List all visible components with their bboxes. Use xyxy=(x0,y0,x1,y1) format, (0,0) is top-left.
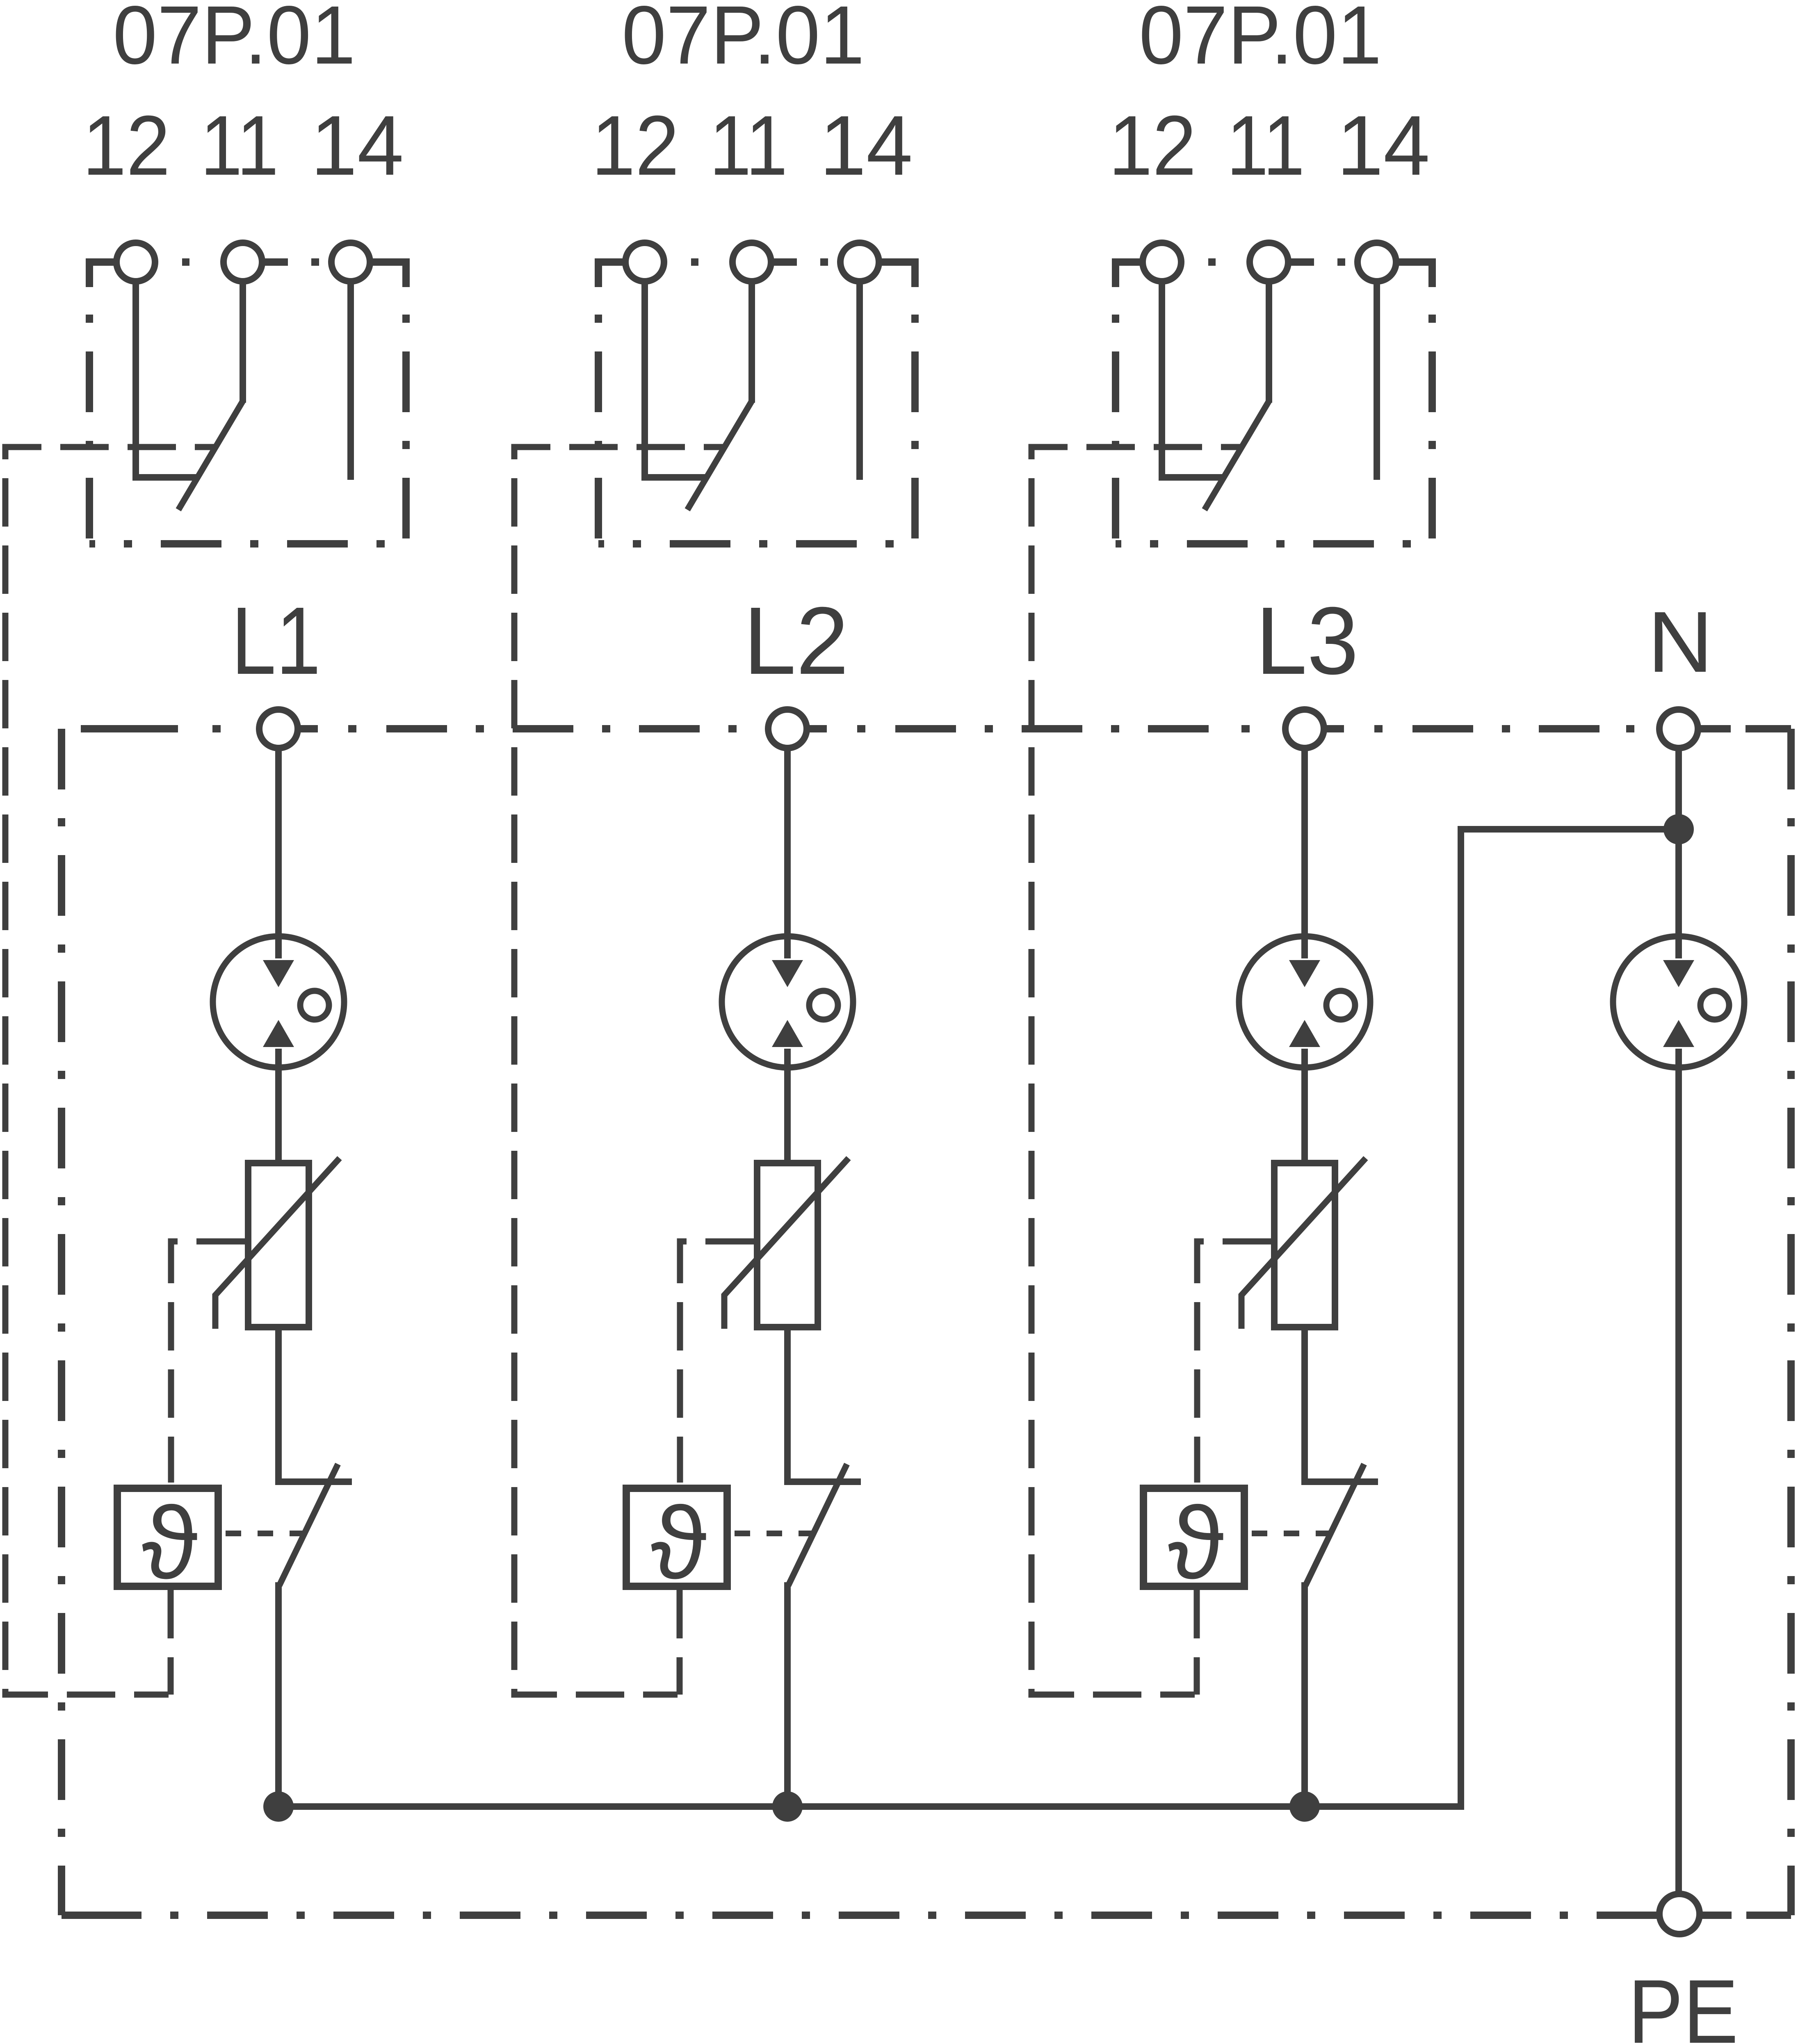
thermal coupling dashed line from varistor RV2 to thermal sensor xyxy=(680,1241,754,1483)
corner dash piece at enclosure bottom-left xyxy=(62,1912,108,1919)
relay 07P.01 #3 box left edge (dash-dot) xyxy=(1112,287,1119,544)
varistor RV1 body xyxy=(248,1163,309,1327)
common bus wire from phases up to neutral node xyxy=(278,829,1679,1807)
thermal sensor box 2 xyxy=(626,1488,727,1586)
thermal disconnector switch blade 1 xyxy=(279,1464,338,1585)
SPD enclosure top edge, N to right corner xyxy=(1701,725,1791,732)
svg-text:07P.01: 07P.01 xyxy=(113,0,356,81)
terminal 11 (relay 2) xyxy=(732,243,771,281)
relay 07P.01 #3 box bottom edge (dash-dot) xyxy=(1116,540,1432,547)
svg-text:07P.01: 07P.01 xyxy=(1139,0,1382,81)
relay 07P.01 #1 box left edge (dash-dot) xyxy=(86,287,93,544)
relay 1 box top edge dot between pins 11 and 14 xyxy=(311,258,319,266)
svg-text:N: N xyxy=(1647,593,1713,690)
wire from terminal 12 down and right to NC contact (relay 1) xyxy=(136,281,198,477)
relay 07P.01 #1 box bottom edge (dash-dot) xyxy=(89,540,406,547)
wire from switch 1 down to common bus xyxy=(275,1582,282,1807)
svg-text:11: 11 xyxy=(201,98,279,193)
svg-text:12: 12 xyxy=(591,98,679,193)
svg-text:ϑ: ϑ xyxy=(1168,1485,1224,1600)
SPD enclosure top edge, L1 to L2 xyxy=(301,725,765,732)
wire from switch 3 down to common bus xyxy=(1301,1582,1308,1807)
wire from common terminal 11 (relay 1) xyxy=(240,281,246,403)
svg-text:07P.01: 07P.01 xyxy=(622,0,865,81)
module 1 lower contact arrow (up) xyxy=(263,1020,294,1047)
varistor RV1 diagonal stroke xyxy=(215,1158,340,1329)
wire from varistor RV2 to thermal disconnector switch 2 xyxy=(787,1330,861,1482)
module 3 status indicator window xyxy=(1326,991,1355,1020)
terminal 14 (relay 3) xyxy=(1358,243,1396,281)
module 2 lower contact arrow (up) xyxy=(772,1020,803,1047)
terminal 14 (relay 1) xyxy=(331,243,370,281)
relay 3 box top edge dot between pins 11 and 14 xyxy=(1337,258,1345,266)
module 3 upper contact arrow (down) xyxy=(1289,960,1320,987)
svg-text:11: 11 xyxy=(710,98,788,193)
svg-text:11: 11 xyxy=(1227,98,1305,193)
plug-in module symbol 1: circle with disconnect arrows xyxy=(213,936,344,1068)
terminal L3 on enclosure top edge xyxy=(1285,709,1324,748)
wire from module 2 to varistor RV2 xyxy=(784,1049,791,1163)
svg-text:12: 12 xyxy=(82,98,170,193)
dashed linkage below thermal sensor 1 xyxy=(168,1590,174,1695)
wire from terminal L3 to plug-in module 3 xyxy=(1301,748,1308,958)
svg-text:14: 14 xyxy=(820,98,913,193)
svg-text:L3: L3 xyxy=(1256,587,1359,694)
wire from terminal 14, NO contact (relay 3) xyxy=(1374,281,1380,480)
module 1 status indicator window xyxy=(300,991,329,1020)
relay 2 box top edge dot between pins 11 and 14 xyxy=(820,258,828,266)
wire from module N down to PE terminal xyxy=(1675,1049,1682,1895)
varistor RV2 body xyxy=(757,1163,818,1327)
varistor RV3 diagonal stroke xyxy=(1241,1158,1366,1329)
relay 07P.01 #2 box left edge (dash-dot) xyxy=(595,287,602,544)
thermal coupling dashed line from varistor RV1 to thermal sensor xyxy=(171,1241,245,1483)
relay 1 box top edge dot between pins 12 and 11 xyxy=(182,258,189,266)
thermal sensor box 3 xyxy=(1143,1488,1244,1586)
wire from terminal 12 down and right to NC contact (relay 3) xyxy=(1162,281,1224,477)
svg-text:ϑ: ϑ xyxy=(651,1485,707,1600)
wire from varistor RV1 to thermal disconnector switch 1 xyxy=(278,1330,352,1482)
terminal 12 (relay 2) xyxy=(625,243,664,281)
relay 07P.01 #1 box right edge (dash-dot) xyxy=(402,287,410,544)
varistor RV2 diagonal stroke xyxy=(724,1158,849,1329)
junction node phase 2 on common bus xyxy=(772,1791,803,1822)
thermal disconnector switch blade 2 xyxy=(788,1464,847,1585)
terminal N on enclosure top edge xyxy=(1659,709,1698,748)
dashed link from thermal sensor 2 to switch blade xyxy=(731,1531,812,1536)
terminal 11 (relay 3) xyxy=(1250,243,1288,281)
wire from varistor RV3 to thermal disconnector switch 3 xyxy=(1305,1330,1378,1482)
wire from terminal 14, NO contact (relay 2) xyxy=(856,281,863,480)
relay 2 changeover blade xyxy=(687,401,752,510)
wire from common terminal 11 (relay 2) xyxy=(748,281,755,403)
mechanical linkage (dashed) of surge module 2 to relay blade xyxy=(514,447,725,1695)
plug-in module symbol N: circle with disconnect arrows xyxy=(1613,936,1744,1068)
relay 07P.01 #2 box right edge (dash-dot) xyxy=(911,287,919,544)
relay 2 box top edge dot between pins 12 and 11 xyxy=(691,258,698,266)
junction node phase 1 on common bus xyxy=(263,1791,294,1822)
thermal sensor box 1 xyxy=(117,1488,218,1586)
solid corner stubs on relay 2 box top edge xyxy=(598,262,915,287)
svg-text:12: 12 xyxy=(1109,98,1196,193)
svg-text:L1: L1 xyxy=(231,587,321,694)
dashed link from thermal sensor 3 to switch blade xyxy=(1248,1531,1330,1536)
svg-text:ϑ: ϑ xyxy=(142,1485,198,1600)
SPD enclosure bottom edge, left corner to PE xyxy=(62,1912,1657,1919)
terminal L2 on enclosure top edge xyxy=(768,709,807,748)
wire from module 1 to varistor RV1 xyxy=(275,1049,282,1163)
relay 07P.01 #2 box bottom edge (dash-dot) xyxy=(598,540,915,547)
wire from terminal 14, NO contact (relay 1) xyxy=(347,281,354,480)
module N lower contact arrow (up) xyxy=(1663,1020,1694,1047)
junction node N xyxy=(1663,814,1694,844)
wire from terminal L1 to plug-in module 1 xyxy=(275,748,282,958)
terminal 14 (relay 2) xyxy=(840,243,879,281)
terminal 12 (relay 1) xyxy=(116,243,155,281)
SPD enclosure right edge xyxy=(1787,729,1795,1915)
wire from common terminal 11 (relay 3) xyxy=(1266,281,1272,403)
wire from terminal N to plug-in module N xyxy=(1675,748,1682,958)
wire from switch 2 down to common bus xyxy=(784,1582,791,1807)
SPD enclosure top edge, L2 to L3 xyxy=(810,725,1282,732)
relay 3 changeover blade xyxy=(1205,401,1269,510)
PE terminal on enclosure bottom edge xyxy=(1659,1894,1700,1934)
svg-text:14: 14 xyxy=(311,98,404,193)
module 1 upper contact arrow (down) xyxy=(263,960,294,987)
mechanical linkage (dashed) of surge module 3 to relay blade xyxy=(1031,447,1242,1695)
wire from terminal 12 down and right to NC contact (relay 2) xyxy=(645,281,707,477)
module N status indicator window xyxy=(1700,991,1729,1020)
solid corner stubs on relay 1 box top edge xyxy=(89,262,406,287)
svg-text:14: 14 xyxy=(1337,98,1430,193)
terminal 12 (relay 3) xyxy=(1143,243,1181,281)
wire from module 3 to varistor RV3 xyxy=(1301,1049,1308,1163)
plug-in module symbol 2: circle with disconnect arrows xyxy=(722,936,853,1068)
relay 3 box top edge dot between pins 12 and 11 xyxy=(1208,258,1216,266)
module 2 status indicator window xyxy=(809,991,838,1020)
dashed link from thermal sensor 1 to switch blade xyxy=(222,1531,303,1536)
junction node phase 3 on common bus xyxy=(1289,1791,1320,1822)
module N upper contact arrow (down) xyxy=(1663,960,1694,987)
SPD enclosure top edge, left corner to L1 xyxy=(62,725,256,732)
wire from terminal L2 to plug-in module 2 xyxy=(784,748,791,958)
relay 1 changeover blade xyxy=(178,401,243,510)
mechanical linkage (dashed) of surge module 1 to relay blade xyxy=(5,447,216,1695)
svg-text:L2: L2 xyxy=(744,587,849,694)
thermal coupling dashed line from varistor RV3 to thermal sensor xyxy=(1197,1241,1271,1483)
module 2 upper contact arrow (down) xyxy=(772,960,803,987)
dashed linkage below thermal sensor 2 xyxy=(677,1590,683,1695)
SPD enclosure top edge, L3 to N xyxy=(1327,725,1657,732)
terminal L1 on enclosure top edge xyxy=(259,709,298,748)
terminal 11 (relay 1) xyxy=(224,243,262,281)
solid corner stubs on relay 3 box top edge xyxy=(1116,262,1432,287)
plug-in module symbol 3: circle with disconnect arrows xyxy=(1239,936,1370,1068)
SPD enclosure left edge xyxy=(58,729,65,1915)
SPD enclosure bottom edge, PE to right corner xyxy=(1702,1912,1791,1919)
dashed linkage below thermal sensor 3 xyxy=(1194,1590,1200,1695)
relay 07P.01 #3 box right edge (dash-dot) xyxy=(1428,287,1436,544)
svg-text:PE: PE xyxy=(1628,1961,1739,2044)
varistor RV3 body xyxy=(1274,1163,1335,1327)
thermal disconnector switch blade 3 xyxy=(1305,1464,1364,1585)
module 3 lower contact arrow (up) xyxy=(1289,1020,1320,1047)
